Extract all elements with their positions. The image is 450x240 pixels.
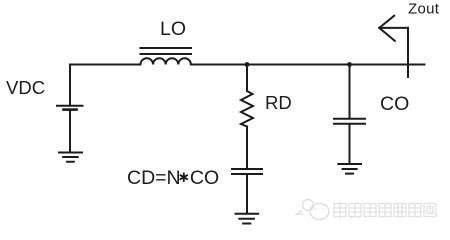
wire: RD branch vertical upper xyxy=(246,65,248,92)
asterisk in CD=N*CO xyxy=(180,173,187,181)
Zout arrow shaft xyxy=(379,27,408,29)
svg-text:VDC: VDC xyxy=(6,77,45,98)
capacitor CD top plate xyxy=(232,168,262,170)
capacitor CO bottom plate xyxy=(334,123,365,125)
ground (CO) xyxy=(338,164,361,174)
svg-text:RD: RD xyxy=(265,92,292,113)
node: junction dot RD xyxy=(245,62,250,67)
wire: VDC branch vertical upper xyxy=(69,65,71,105)
Zout arrowhead xyxy=(379,16,395,41)
svg-text:CO: CO xyxy=(380,93,409,115)
svg-text:LO: LO xyxy=(160,18,186,40)
battery VDC bottom plate xyxy=(64,108,77,111)
wire: CD to ground vertical xyxy=(246,175,248,213)
ground (VDC) xyxy=(59,153,82,162)
wire: CO to ground vertical xyxy=(349,125,351,163)
capacitor CD bottom plate xyxy=(232,173,262,175)
watermark text 电源研发精英圈 xyxy=(334,202,436,219)
ground (CD) xyxy=(236,214,259,224)
wire: VDC branch vertical lower xyxy=(69,111,71,152)
battery VDC top plate xyxy=(57,105,83,107)
wire: top horizontal left segment (VDC corner to inductor) xyxy=(70,64,141,66)
inductor LO core lines xyxy=(141,48,192,54)
svg-text:Zout: Zout xyxy=(408,1,440,18)
wire: RD to CD vertical xyxy=(246,127,248,169)
svg-text:CD=N: CD=N xyxy=(127,167,181,189)
Zout probe vertical xyxy=(407,28,409,77)
node: junction dot CO xyxy=(347,62,352,67)
capacitor CO top plate xyxy=(334,118,365,120)
svg-text:CO: CO xyxy=(190,167,219,189)
inductor LO coil xyxy=(141,58,191,64)
wire: CO branch vertical upper xyxy=(349,65,351,118)
resistor RD zigzag xyxy=(241,91,253,127)
wire: top horizontal right segment (inductor to right end) xyxy=(191,64,425,66)
watermark icon (chat bubbles) xyxy=(297,200,330,220)
